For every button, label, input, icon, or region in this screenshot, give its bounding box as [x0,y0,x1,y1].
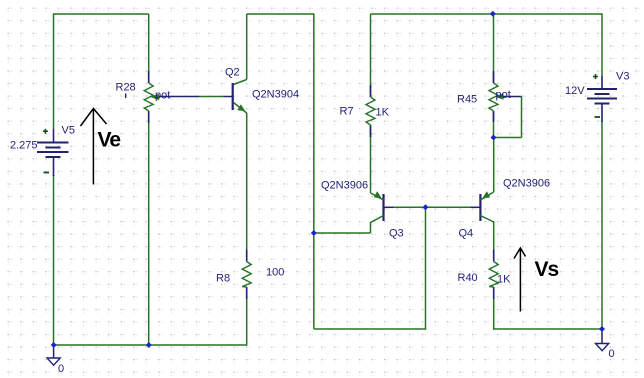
wire R45 wiper pin [502,96,522,98]
junction bottom left at R28 [146,342,152,348]
svg-text:Q3: Q3 [389,228,404,240]
wire Q2 emitter to R8 [246,113,248,262]
wire Q2 collector leg [246,14,248,80]
svg-text:1K: 1K [376,107,390,119]
svg-text:Ve: Ve [98,129,121,152]
junction top rail at R45 [490,11,496,17]
svg-text:0: 0 [609,348,615,360]
resistor R40 [458,250,512,300]
junction Q3-Q4 base node [423,204,429,210]
resistor R8 [216,250,284,300]
junction bottom left at V5 [51,342,57,348]
wire left vertical lower (V5 minus lead) [53,175,55,345]
svg-text:R28: R28 [116,82,136,94]
svg-text:Q2N3906: Q2N3906 [321,180,368,192]
wire bottom right rail [494,328,602,330]
svg-text:Q2: Q2 [225,67,240,79]
wire V3 bottom lead [601,121,603,329]
wire R40 to bottom right rail [493,287,495,330]
junction bottom right at ground [599,326,605,332]
wire R45 bottom to bypass junction [493,111,495,138]
junction mirror vertical at Q3 collector [311,230,317,236]
wire rect2 top (Q2 collector to mirror) [247,13,314,15]
wire top right rail [371,13,603,15]
wire Q3 base to Q4 base [384,206,394,208]
svg-text:V3: V3 [616,71,629,83]
wire V3 top lead [601,13,603,76]
svg-text:Q4: Q4 [459,228,474,240]
svg-text:R7: R7 [340,106,354,118]
svg-text:1K: 1K [497,274,511,286]
wire rect1 top (V5 to R28) [54,13,149,15]
annotation arrow Ve [81,109,121,185]
svg-text:Q2N3906: Q2N3906 [503,178,550,190]
wire R28 leg to bottom rail [148,111,150,345]
svg-text:Vs: Vs [535,258,559,281]
voltage source V3 (battery 12V) [565,71,629,123]
wire Q3 collector to mirror vertical [314,232,371,234]
wire R28 leg from top rail [148,14,150,83]
wire bottom left rail [54,344,247,346]
wire R8 to bottom rail [246,287,248,346]
wire R28 wiper to Q2 base [158,96,199,98]
wire Q4 collector to R40 [493,221,495,262]
transistor Q4 (PNP Q2N3906) [459,178,551,240]
svg-text:pot: pot [496,89,511,101]
svg-text:Q2N3904: Q2N3904 [252,89,299,101]
junction R45 bypass bottom [491,135,497,141]
svg-text:R40: R40 [458,272,478,284]
wire R45 wiper bypass bottom [494,137,522,139]
annotation arrow Vs [514,248,559,312]
wire R7 to Q3 emitter [370,125,372,193]
svg-text:12V: 12V [565,85,585,97]
svg-text:pot: pot [155,89,170,101]
resistor R7 [340,85,390,137]
ground 0 (right) [596,329,615,360]
wire R45 leg from top rail [493,14,495,83]
svg-text:R45: R45 [457,94,477,106]
svg-text:R8: R8 [216,273,230,285]
resistor R45 (pot) [457,71,511,122]
wire R7 leg from top rail [370,14,372,97]
resistor R28 (pot) [116,71,171,123]
wire R45 wiper bypass right vertical [521,97,523,138]
svg-text:0: 0 [58,363,64,375]
ground 0 (left) [47,345,64,375]
svg-text:V5: V5 [62,125,75,137]
wire bypass junction to Q4 emitter [493,138,495,193]
wire middle bottom rail [314,328,426,330]
svg-text:100: 100 [266,267,284,279]
wire left vertical upper (V5 plus lead) [53,13,55,129]
transistor Q2 (NPN Q2N3904) [225,67,299,114]
transistor Q3 (PNP Q2N3906, mirrored) [321,180,404,240]
svg-text:2.275: 2.275 [10,140,38,152]
wire mirror left vertical [313,13,315,329]
voltage source V5 (battery 2.275V) [10,125,75,177]
wire base-junction drop [425,207,427,329]
